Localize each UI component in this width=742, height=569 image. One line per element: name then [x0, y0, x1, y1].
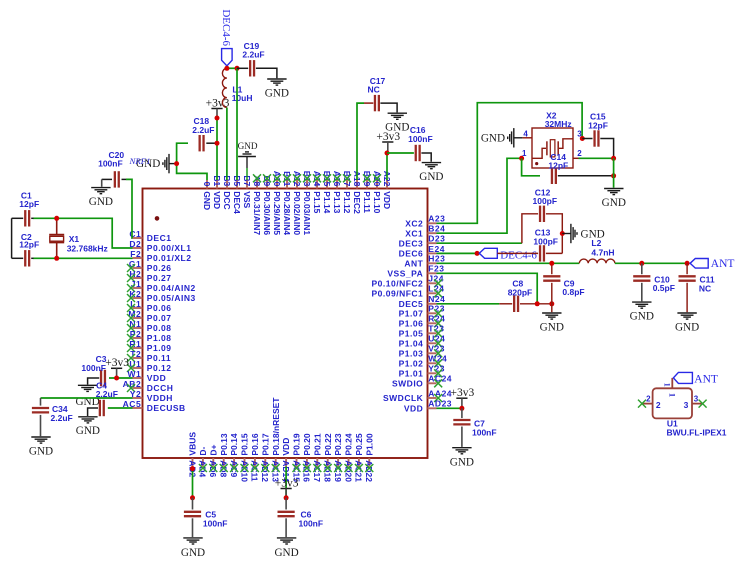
capacitor C13 — [533, 228, 558, 262]
svg-text:P0.29/AIN5: P0.29/AIN5 — [272, 191, 282, 235]
svg-text:P0.09/NFC1: P0.09/NFC1 — [372, 288, 424, 298]
ground for C16 — [422, 162, 441, 164]
svg-text:P1.07: P1.07 — [399, 308, 424, 318]
pin AD16 P0.20 (bottom) — [302, 433, 312, 482]
svg-text:GND: GND — [181, 547, 205, 559]
power +3v3 at AD14 — [281, 488, 292, 490]
svg-text:F23: F23 — [428, 264, 444, 274]
svg-text:SWDCLK: SWDCLK — [383, 393, 424, 403]
svg-text:P0.26: P0.26 — [147, 263, 172, 273]
wire flag to C13 — [497, 252, 538, 254]
pin B15 P1.14 (top) — [322, 171, 332, 214]
svg-text:P0.07: P0.07 — [147, 313, 172, 323]
capacitor C15 — [582, 112, 608, 147]
junction X1 bottom — [54, 256, 59, 261]
svg-text:P0.27: P0.27 — [147, 273, 172, 283]
pin AC24 SWDIO (right) — [392, 374, 452, 389]
svg-text:SWDIO: SWDIO — [392, 378, 423, 388]
ground for C17 — [388, 112, 407, 114]
wire C18 right to VDD B1 net — [206, 142, 217, 144]
pin 0 GND (top) — [202, 180, 212, 210]
svg-text:GND: GND — [89, 196, 113, 208]
flag ANT at U1 — [673, 372, 718, 385]
svg-text:100nF: 100nF — [472, 428, 497, 438]
pin AC17 P0.21 (bottom) — [312, 433, 322, 482]
svg-text:AD23: AD23 — [428, 399, 452, 409]
junction B1/C18 — [215, 141, 220, 146]
svg-text:GND: GND — [675, 321, 699, 333]
wire C1-C2 left rail — [11, 218, 13, 258]
ground for C9 — [542, 312, 561, 314]
pin AC19 P0.23 (bottom) — [333, 433, 343, 482]
svg-text:VDD: VDD — [281, 438, 291, 456]
svg-text:GND: GND — [540, 321, 564, 333]
wire L2 to antenna — [615, 262, 687, 264]
wire XL2 net — [33, 257, 133, 259]
power +3v3 top — [211, 108, 222, 110]
svg-text:X1: X1 — [69, 234, 80, 244]
junction ANT flag — [685, 261, 690, 266]
capacitor C20 — [98, 150, 124, 188]
wire XC1 B24 to X2 pin1 — [437, 158, 522, 233]
svg-text:N24: N24 — [428, 294, 445, 304]
svg-text:DEC1: DEC1 — [147, 233, 172, 243]
ground for C19 — [267, 78, 286, 80]
pin A16 P1.13 (top) — [332, 171, 342, 214]
capacitor C4 — [96, 381, 118, 417]
wire +3v3 to pin B1 — [216, 118, 218, 180]
pin 1 stub of U1 — [671, 378, 673, 388]
ground above pin B7 VSS — [238, 141, 258, 180]
svg-text:NRF1: NRF1 — [129, 156, 151, 166]
svg-text:P0.12: P0.12 — [147, 363, 172, 373]
svg-text:VDD: VDD — [404, 403, 423, 413]
wire C12 right down to C13 — [546, 214, 562, 254]
svg-text:P0.01/XL2: P0.01/XL2 — [147, 253, 192, 263]
svg-text:P0.15: P0.15 — [240, 433, 250, 455]
wire C17 right to ground — [380, 103, 397, 112]
svg-text:+3v3: +3v3 — [275, 477, 299, 489]
wire DEC4 pin B5 up — [236, 68, 238, 180]
junction C8/VSS_PA — [535, 301, 540, 306]
svg-text:P1.03: P1.03 — [399, 348, 424, 358]
ground between C12/C13 (sideways) — [562, 224, 604, 243]
capacitor C6 — [278, 498, 324, 529]
svg-text:DEC2: DEC2 — [352, 191, 362, 214]
wire XC2 A23 to X2 pin3 — [437, 103, 583, 224]
pin AC13 P0.18/nRESET (bottom) — [271, 397, 281, 483]
flag DEC4-6 (right) — [479, 248, 537, 261]
junction C6 top — [284, 495, 289, 500]
junction B1/+3v3 — [215, 116, 220, 121]
svg-text:12pF: 12pF — [19, 199, 39, 209]
svg-text:DEC5: DEC5 — [399, 299, 424, 309]
svg-text:2: 2 — [577, 149, 582, 158]
svg-text:ANT: ANT — [404, 258, 423, 268]
ground for C4 — [78, 416, 97, 418]
svg-text:P0.13: P0.13 — [219, 433, 229, 455]
svg-text:NC: NC — [699, 283, 711, 293]
svg-text:P0.00/XL1: P0.00/XL1 — [147, 243, 192, 253]
svg-text:GND: GND — [202, 191, 212, 210]
power +3v3 at A22 — [382, 141, 393, 143]
pin A14 P1.15 (top) — [312, 171, 322, 214]
flag ANT (right) — [690, 258, 734, 270]
ground at X2 pin 4 — [481, 128, 523, 147]
svg-text:100nF: 100nF — [203, 519, 228, 529]
svg-text:P0.02/AIN0: P0.02/AIN0 — [292, 191, 302, 235]
svg-text:4: 4 — [523, 130, 528, 139]
pin AD18 P0.22 (bottom) — [323, 433, 333, 482]
wire VBUS AD2 down — [192, 467, 194, 498]
wire DEC2 pin A18 to C17 — [357, 103, 364, 180]
capacitor C9 — [543, 263, 584, 297]
svg-text:1: 1 — [663, 383, 672, 387]
wire ANT H23 to L2 — [437, 262, 580, 264]
svg-text:VSS_PA: VSS_PA — [387, 268, 423, 278]
pin C1 DEC1 (left) — [129, 229, 171, 243]
junction C5 top — [190, 495, 195, 500]
wire C14 right — [558, 175, 614, 177]
svg-text:GND: GND — [274, 547, 298, 559]
svg-text:2.2uF: 2.2uF — [96, 389, 118, 399]
wire C10 to ground — [641, 283, 643, 302]
svg-text:NC: NC — [368, 85, 380, 95]
svg-text:P1.13: P1.13 — [332, 191, 342, 213]
junction DEC4-6/C19 — [235, 66, 240, 71]
pin AD10 P0.15 (bottom) — [239, 433, 249, 482]
wire C3 left to ground — [88, 378, 100, 385]
ground NRF1 (sideways) — [136, 154, 177, 173]
svg-text:GND: GND — [29, 445, 53, 457]
pin 1 marker dot — [155, 216, 160, 221]
svg-text:100nF: 100nF — [408, 134, 433, 144]
svg-text:P0.04/AIN2: P0.04/AIN2 — [147, 283, 196, 293]
junction X2 pin1 / C14 — [519, 156, 524, 161]
svg-text:P1.14: P1.14 — [322, 191, 332, 213]
pin B7 VSS (top) — [242, 175, 252, 208]
wire DEC6 E24 to flag — [437, 252, 478, 254]
junction NRF1 gnd — [174, 161, 179, 166]
junction C9 top — [549, 261, 554, 266]
svg-text:VDD: VDD — [147, 373, 166, 383]
capacitor C1 — [12, 190, 40, 226]
pin B17 P1.12 (top) — [342, 171, 352, 214]
pin Y2 VDDH (left) — [130, 389, 173, 403]
ground for X2 load caps — [604, 188, 623, 190]
svg-text:12pF: 12pF — [548, 161, 568, 171]
pin P2 P1.08 (left) — [127, 329, 172, 343]
power +3v3 at AD23 — [456, 397, 467, 399]
junction X1 top — [54, 216, 59, 221]
pin A8 P0.31/AIN7 (top) — [252, 174, 262, 235]
svg-text:2.2uF: 2.2uF — [242, 50, 264, 60]
svg-text:P0.30/AIN6: P0.30/AIN6 — [262, 191, 272, 235]
pin A22 VDD (top) — [382, 171, 392, 209]
svg-text:P0.19: P0.19 — [292, 433, 302, 455]
pin G1 P0.26 (left) — [127, 259, 172, 273]
svg-text:P0.06: P0.06 — [147, 303, 172, 313]
svg-text:100pF: 100pF — [533, 236, 558, 246]
svg-text:2: 2 — [656, 400, 661, 410]
pin W1 VDD (left) — [127, 369, 166, 383]
pin B11 P0.28/AIN4 (top) — [282, 171, 292, 235]
svg-text:DEC4-6: DEC4-6 — [500, 250, 537, 262]
svg-text:12pF: 12pF — [19, 240, 39, 250]
svg-text:1: 1 — [667, 393, 677, 397]
svg-text:P0.05/AIN3: P0.05/AIN3 — [147, 293, 196, 303]
svg-text:D+: D+ — [208, 444, 218, 455]
wire C11 to ground — [686, 283, 688, 312]
svg-text:P0.14: P0.14 — [229, 433, 239, 455]
pin R24 P1.06 (right) — [399, 314, 446, 329]
svg-text:BWU.FL-IPEX1: BWU.FL-IPEX1 — [667, 428, 727, 438]
junction C14/C15 net — [611, 173, 616, 178]
svg-text:P0.28/AIN4: P0.28/AIN4 — [282, 191, 292, 235]
connector U1 body — [653, 388, 692, 418]
svg-text:H23: H23 — [428, 254, 445, 264]
svg-text:GND: GND — [630, 311, 654, 323]
capacitor C3 — [81, 354, 106, 386]
svg-text:P0.03/AIN1: P0.03/AIN1 — [302, 191, 312, 235]
wire VSS_PA F23 — [437, 273, 538, 304]
capacitor C8 — [499, 279, 532, 313]
wire DEC5 N24 to C8 — [437, 303, 500, 305]
pin A10 P0.29/AIN5 (top) — [272, 171, 282, 236]
pin T2 P0.11 (left) — [127, 349, 171, 363]
svg-text:P0.18/nRESET: P0.18/nRESET — [271, 397, 281, 456]
svg-text:P0.11: P0.11 — [147, 353, 171, 363]
wire AD14 VDD down — [285, 467, 287, 498]
capacitor C14 — [522, 152, 569, 184]
svg-text:GND: GND — [602, 197, 626, 209]
svg-text:GND: GND — [238, 141, 258, 151]
svg-text:P0.10/NFC2: P0.10/NFC2 — [372, 278, 424, 288]
svg-text:100nF: 100nF — [81, 363, 106, 373]
pin F23 VSS_PA (right) — [387, 264, 444, 279]
svg-text:100pF: 100pF — [533, 196, 558, 206]
svg-text:P1.09: P1.09 — [147, 343, 172, 353]
inductor L1 — [222, 68, 252, 107]
svg-text:VDD: VDD — [212, 191, 222, 209]
svg-text:P0.16: P0.16 — [250, 433, 260, 455]
capacitor C10 — [633, 263, 675, 293]
pin N24 DEC5 (right) — [399, 294, 446, 309]
svg-text:B24: B24 — [428, 224, 445, 234]
pin AD2 VBUS (bottom) — [187, 432, 197, 478]
svg-text:DCC: DCC — [222, 191, 232, 209]
svg-text:P1.04: P1.04 — [399, 338, 424, 348]
svg-text:GND: GND — [450, 457, 474, 469]
pin P23 P1.07 (right) — [399, 304, 445, 319]
pin E24 DEC6 (right) — [399, 244, 445, 259]
svg-text:2.2uF: 2.2uF — [192, 125, 214, 135]
svg-text:DEC4-6: DEC4-6 — [220, 9, 232, 46]
svg-text:XC1: XC1 — [405, 228, 423, 238]
svg-text:100nF: 100nF — [299, 519, 324, 529]
pin L1 P0.06 (left) — [127, 299, 172, 313]
wire C6 to ground — [285, 518, 287, 537]
svg-text:C1: C1 — [129, 229, 141, 239]
pin AA24 SWDCLK (right) — [383, 388, 452, 403]
svg-text:P1.10: P1.10 — [372, 191, 382, 213]
pin A20 P1.10 (top) — [372, 171, 382, 214]
pin N1 P0.08 (left) — [127, 319, 172, 333]
pin Y23 P1.01 (right) — [399, 364, 445, 379]
wire C7 to ground — [461, 427, 463, 447]
junction A22/C16 — [385, 151, 390, 156]
svg-text:P1.06: P1.06 — [399, 318, 424, 328]
pin B24 XC1 (right) — [405, 224, 445, 239]
svg-text:100nF: 100nF — [98, 158, 123, 168]
wire W1 VDD — [109, 377, 133, 379]
svg-text:P1.08: P1.08 — [147, 333, 172, 343]
junction AD2 stub — [190, 466, 195, 471]
pin 3 of U1 — [684, 394, 707, 410]
pin number 1 labels of U1 — [663, 383, 678, 397]
pin K2 P0.05/AIN3 (left) — [127, 289, 196, 303]
svg-text:DEC4: DEC4 — [232, 191, 242, 214]
pin J24 P0.10/NFC2 (right) — [372, 274, 444, 289]
pin D2 P0.00/XL1 (left) — [129, 239, 191, 253]
svg-text:P1.12: P1.12 — [342, 191, 352, 213]
pin A23 XC2 (right) — [405, 214, 445, 229]
pin B13 P0.03/AIN1 (top) — [302, 171, 312, 236]
capacitor C7 — [453, 408, 496, 437]
svg-text:P1.02: P1.02 — [399, 358, 424, 368]
wire A22 VDD up — [386, 153, 388, 180]
pin AD12 P0.17 (bottom) — [260, 433, 270, 482]
junction DEC6 flag — [475, 251, 480, 256]
inductor L2 — [579, 238, 615, 263]
wire Y2 VDDH to C34 — [41, 397, 133, 399]
svg-text:P0.31/AIN7: P0.31/AIN7 — [252, 191, 262, 235]
wire C8 right — [520, 303, 552, 305]
ground for C6 — [277, 537, 296, 539]
pin AD22 P1.00 (bottom) — [364, 433, 374, 482]
svg-text:P0.17: P0.17 — [260, 433, 270, 455]
wire C19 right to ground — [256, 68, 277, 78]
pin H23 ANT (right) — [404, 254, 445, 269]
wire C15 right down — [600, 139, 613, 159]
junction pin2 net — [611, 156, 616, 161]
pin AC15 P0.19 (bottom) — [291, 433, 301, 482]
wire C20 left to GND — [102, 178, 112, 180]
ground for C34 — [31, 436, 50, 438]
capacitor C16 — [387, 125, 433, 161]
svg-text:P0.20: P0.20 — [302, 433, 312, 455]
svg-text:D-: D- — [198, 446, 208, 455]
wire X2 pin2 to C15 net — [579, 157, 614, 159]
pin F2 P0.01/XL2 (left) — [130, 249, 191, 263]
svg-text:0.8pF: 0.8pF — [562, 287, 584, 297]
pin AD23 VDD (right) — [404, 399, 452, 414]
svg-text:VDDH: VDDH — [147, 393, 173, 403]
wire C4 left to ground — [88, 408, 98, 416]
svg-text:GND: GND — [481, 132, 505, 144]
junction X2 pin3 / C15 — [580, 136, 585, 141]
svg-text:P0.21: P0.21 — [312, 433, 322, 455]
svg-text:DECUSB: DECUSB — [147, 403, 186, 413]
svg-text:P1.05: P1.05 — [399, 328, 424, 338]
pin B1 VDD (top) — [212, 175, 222, 209]
pin AC21 P0.25 (bottom) — [354, 433, 364, 482]
svg-text:P1.15: P1.15 — [312, 191, 322, 213]
pin D23 DEC3 (right) — [399, 234, 446, 249]
svg-text:ANT: ANT — [711, 258, 735, 270]
power +3v3 at W1 — [111, 367, 122, 369]
ground for C5 — [183, 537, 202, 539]
svg-text:32.768kHz: 32.768kHz — [67, 244, 108, 254]
pin B3 DCC (top) — [222, 175, 232, 209]
wire C9 bottom to ground — [551, 283, 553, 312]
svg-text:VDD: VDD — [382, 191, 392, 209]
wire down to ground X2 net — [613, 158, 615, 187]
svg-text:2.2uF: 2.2uF — [51, 413, 73, 423]
svg-text:GND: GND — [76, 425, 100, 437]
junction AD23/C7 — [459, 406, 464, 411]
pin 2 of U1 — [638, 394, 661, 410]
junction W1/+3v3 — [114, 376, 119, 381]
wire AC5 DECUSB to C4 — [108, 407, 133, 409]
svg-text:+3v3: +3v3 — [451, 387, 475, 399]
capacitor C11 — [679, 263, 715, 293]
pin AD8 P0.13 (bottom) — [219, 433, 229, 477]
wire AD23 VDD — [437, 407, 462, 409]
pin U24 P1.04 (right) — [399, 334, 446, 349]
svg-text:+3v3: +3v3 — [376, 131, 400, 143]
svg-text:P0.25: P0.25 — [354, 433, 364, 455]
svg-text:DEC6: DEC6 — [399, 249, 424, 259]
ground for C7 — [452, 447, 471, 449]
capacitor C12 — [522, 188, 557, 244]
svg-text:XC2: XC2 — [405, 218, 423, 228]
svg-text:D23: D23 — [428, 234, 445, 244]
pin A18 DEC2 (top) — [352, 171, 362, 214]
pin AD20 P0.24 (bottom) — [343, 433, 353, 482]
svg-text:P0.08: P0.08 — [147, 323, 172, 333]
svg-text:10uH: 10uH — [232, 93, 253, 103]
svg-text:32MHz: 32MHz — [545, 119, 572, 129]
svg-text:0.5pF: 0.5pF — [653, 283, 675, 293]
wire DEC3 D23 to C12 — [437, 242, 522, 244]
pin H2 P0.27 (left) — [127, 269, 172, 283]
svg-text:820pF: 820pF — [508, 287, 533, 297]
svg-text:DCCH: DCCH — [147, 383, 174, 393]
svg-text:P0.22: P0.22 — [323, 433, 333, 455]
svg-text:ANT: ANT — [694, 374, 718, 386]
svg-text:A23: A23 — [428, 214, 445, 224]
junction C12-C13 gnd — [560, 231, 565, 236]
pin W24 P1.02 (right) — [399, 354, 448, 369]
pin B9 P0.30/AIN6 (top) — [262, 174, 272, 235]
pin V23 P1.03 (right) — [399, 344, 445, 359]
svg-text:3: 3 — [684, 400, 689, 410]
pin AC5 DECUSB (left) — [123, 399, 186, 413]
ground for C10 — [632, 301, 651, 303]
svg-text:0: 0 — [202, 182, 212, 187]
ground for C3 — [78, 384, 97, 386]
svg-text:P0.23: P0.23 — [333, 433, 343, 455]
pin AB2 DCCH (left) — [123, 379, 174, 393]
svg-text:GND: GND — [419, 171, 443, 183]
svg-text:12pF: 12pF — [588, 120, 608, 130]
pin R1 P1.09 (left) — [127, 339, 172, 353]
pin AC9 P0.14 (bottom) — [229, 433, 239, 477]
svg-text:P1.00: P1.00 — [364, 433, 374, 455]
oscillator X2 — [522, 110, 582, 168]
pin J1 P0.04/AIN2 (left) — [127, 279, 196, 293]
